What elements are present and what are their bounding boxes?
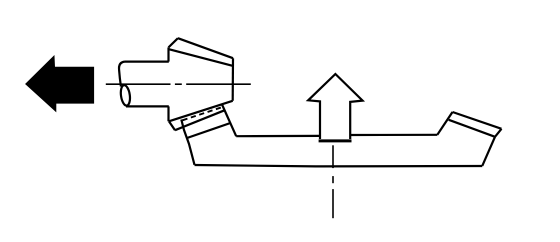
taper cone left edge lower — [167, 106, 169, 121]
cylinder shank bottom line — [126, 105, 169, 107]
force arrow (solid black, pointing left) — [26, 56, 94, 111]
taper cone peak edge — [169, 38, 178, 47]
arm tip end cap — [495, 129, 502, 137]
clamp vee edge — [169, 121, 175, 130]
lift arrow shaft base bar — [319, 139, 352, 142]
arm tip inner line — [449, 120, 495, 137]
arm tip lower diagonal — [482, 137, 495, 166]
cylinder end-face loop (small ellipse) — [120, 85, 132, 107]
hidden taper edge (dashed) — [183, 108, 222, 121]
arm left slant edge — [181, 120, 194, 165]
lift arrow interior mask — [308, 74, 362, 140]
taper cone top facet line — [169, 49, 233, 66]
taper cone left edge upper — [167, 47, 169, 61]
arm head diagonal edge — [222, 105, 236, 137]
arm tip bend-up edge — [437, 112, 452, 135]
clamp band line L3 — [187, 123, 230, 138]
arm bottom edge — [195, 165, 483, 166]
taper cone right edge — [232, 58, 235, 101]
arm top edge right segment — [350, 134, 437, 136]
arm tip top line — [453, 112, 502, 129]
cylinder shank top line — [125, 60, 169, 62]
taper cone top silhouette — [178, 38, 233, 58]
centerline horizontal (spindle axis, dash-dot) — [106, 83, 251, 85]
centerline vertical (lift axis, dash-dot) — [332, 145, 334, 218]
taper cone bottom silhouette — [169, 101, 233, 122]
clamp band lower line — [175, 110, 225, 130]
lift arrow outline (pointing up) — [308, 74, 362, 139]
arm top edge left segment — [236, 135, 320, 138]
cylinder left end curve — [119, 62, 124, 87]
